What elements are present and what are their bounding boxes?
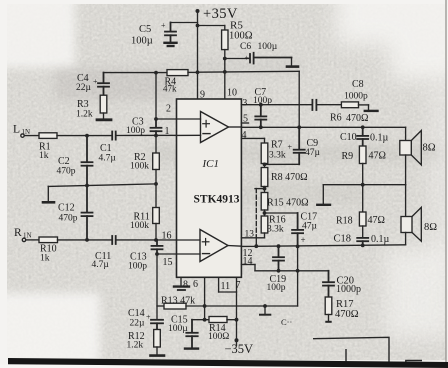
svg-text:470Ω: 470Ω [346, 113, 368, 124]
pin 3 wire to C8 [241, 104, 311, 106]
wire R1 to C1 [57, 135, 112, 137]
svg-text:+: + [146, 313, 151, 322]
svg-text:10: 10 [227, 88, 237, 99]
bias column x=156 down to C3 [155, 73, 157, 119]
svg-text:4.7µ: 4.7µ [92, 260, 110, 270]
wire C6 branch [225, 58, 250, 60]
svg-text:R18: R18 [336, 216, 353, 227]
ground for R3 [97, 118, 111, 121]
speaker 2 feed [405, 185, 407, 217]
svg-text:100p: 100p [267, 283, 286, 293]
svg-text:R15 470Ω: R15 470Ω [267, 198, 309, 209]
capacitor C18 [357, 238, 368, 246]
scan smudges [55, 60, 440, 204]
ground for R12 [151, 354, 165, 357]
right ground rail [323, 184, 405, 186]
svg-text:IC1: IC1 [202, 158, 220, 170]
svg-text:1: 1 [165, 126, 170, 137]
wire Rin to R10 [26, 239, 39, 241]
svg-text:470p: 470p [57, 167, 76, 177]
wire rail to bootstrap corner [198, 70, 300, 73]
svg-text:9: 9 [200, 90, 205, 101]
svg-text:100p: 100p [253, 96, 272, 106]
wire C11 to pin 16 [116, 239, 200, 241]
svg-text:100k: 100k [130, 221, 149, 231]
resistor R17 [325, 297, 332, 315]
svg-text:+: + [288, 143, 293, 152]
U1b plus sign [202, 239, 209, 246]
svg-text:C6: C6 [240, 42, 251, 52]
main output wire channel 1 [241, 126, 405, 128]
svg-text:4: 4 [242, 130, 247, 141]
capacitor C11 [112, 236, 116, 244]
pin 1 wire inside box [177, 134, 201, 136]
pin 7 column to -35V [236, 277, 238, 340]
capacitor C3 [151, 119, 162, 136]
svg-text:L: L [13, 124, 20, 136]
svg-text:47µ: 47µ [305, 148, 321, 158]
column C17 bottom down to R13 line [297, 246, 299, 306]
svg-text:47Ω: 47Ω [369, 151, 386, 162]
pin 8 stub and ground [180, 277, 182, 285]
capacitor C5 [165, 23, 176, 42]
svg-text:4.7µ: 4.7µ [99, 154, 117, 164]
svg-text:13: 13 [245, 230, 255, 240]
svg-text:22µ: 22µ [76, 83, 92, 93]
svg-text:6: 6 [193, 279, 198, 290]
capacitor C7 [255, 105, 266, 128]
speaker 1 [400, 141, 412, 156]
capacitor C2 [82, 136, 93, 186]
capacitor C4 [98, 73, 109, 96]
svg-text:+: + [161, 21, 166, 30]
wire R5 top branch [198, 25, 225, 27]
pin 15 wire inside box [177, 253, 201, 255]
resistor R15 [261, 193, 268, 211]
pin 2 wire inside box [177, 118, 201, 120]
pin 4 wire [241, 137, 264, 139]
resistor R12 [154, 330, 161, 348]
svg-text:15: 15 [163, 257, 173, 268]
resistor R1 [39, 133, 57, 139]
+35V supply column [197, 11, 199, 99]
capacitor C8 [312, 100, 316, 110]
L input terminal [21, 134, 24, 137]
ground stub right rail [322, 185, 324, 204]
svg-text:1000p: 1000p [344, 92, 368, 102]
svg-text:100Ω: 100Ω [229, 31, 253, 42]
resistor R7 [264, 138, 266, 143]
pin 11 stub [218, 277, 220, 292]
svg-text:3.3k: 3.3k [267, 225, 284, 235]
pin 14 wire [241, 264, 255, 266]
svg-text:470p: 470p [59, 214, 78, 224]
svg-text:47µ: 47µ [302, 222, 318, 232]
op-amp U1b triangle [200, 230, 228, 262]
capacitor C9 [294, 127, 305, 164]
svg-text:100Ω: 100Ω [208, 332, 229, 342]
wire C1 to pin 1 [116, 134, 201, 136]
capacitor C12 [82, 186, 93, 240]
pin 15 wire [157, 253, 200, 255]
svg-text:100µ: 100µ [258, 42, 278, 52]
svg-text:C··: C·· [281, 317, 292, 327]
wire R10 to C11 [58, 239, 112, 241]
resistor R11 [153, 208, 160, 224]
svg-text:8: 8 [183, 280, 188, 291]
IC1 STK4913 box [177, 99, 242, 277]
capacitor C6 [250, 53, 292, 64]
bottom black band [8, 358, 448, 368]
U1b output wire [228, 245, 241, 248]
R6 termination stub [368, 105, 370, 110]
R input terminal [22, 238, 25, 241]
svg-text:+: + [93, 77, 98, 86]
resistor R9 [359, 146, 366, 164]
svg-text:C5: C5 [139, 24, 151, 35]
pin 12 output wire channel 2 [241, 245, 405, 247]
ground for C15 [185, 347, 198, 349]
R13 feedback line [157, 305, 164, 307]
resistor R4 [167, 70, 188, 76]
ground for C5 [165, 43, 177, 46]
wire C19 bottom to C20 [255, 270, 329, 272]
resistor R2 [155, 136, 157, 154]
svg-text:1.2k: 1.2k [76, 110, 93, 120]
speaker 1 feed [405, 127, 407, 140]
svg-text:STK4913: STK4913 [194, 194, 240, 206]
svg-text:3.3k: 3.3k [269, 151, 286, 161]
right page border line [445, 0, 447, 365]
svg-text:8Ω: 8Ω [424, 222, 437, 233]
capacitor C20 [323, 271, 334, 297]
R14 / C15 line [192, 319, 209, 321]
resistor R13 [164, 303, 186, 309]
svg-text:C8: C8 [352, 79, 364, 90]
svg-text:100µ: 100µ [131, 36, 153, 47]
svg-text:+: + [301, 235, 306, 245]
ground stub on R13 line [264, 306, 266, 314]
U1b minus sign [203, 253, 210, 255]
resistor R5 [224, 26, 226, 31]
svg-text:2: 2 [166, 104, 171, 115]
resistor R18 [359, 212, 366, 226]
speaker 2 [401, 217, 412, 233]
speaker 2 bottom wire [405, 233, 407, 245]
capacitor C15 [186, 320, 197, 348]
C9/C17 bootstrap column from rail corner [298, 71, 300, 127]
wire C5 top branch [171, 22, 198, 24]
svg-text:3: 3 [243, 99, 248, 109]
speaker 1 bottom wire [405, 155, 407, 185]
pin 2 wire [156, 118, 201, 120]
svg-text:100µ: 100µ [168, 324, 188, 334]
svg-text:47k: 47k [163, 84, 177, 94]
resistor R8 [261, 168, 268, 187]
svg-text:1k: 1k [39, 151, 49, 161]
svg-text:100p: 100p [126, 126, 145, 136]
resistor R14 [209, 317, 227, 323]
wire C8 to R6 [317, 104, 342, 106]
svg-text:R3: R3 [77, 99, 89, 110]
svg-text:C2: C2 [58, 156, 70, 167]
pin 6 column [204, 277, 206, 319]
pin 16 wire inside box [177, 239, 201, 241]
column C13 down to R13 corner and C14 [156, 254, 158, 320]
op-amp U1a triangle [201, 112, 229, 143]
capacitor C1 [112, 132, 116, 140]
top bias rail y=72 [104, 72, 168, 74]
svg-text:R8 470Ω: R8 470Ω [271, 172, 308, 183]
-35V terminal dot [235, 338, 239, 342]
svg-text:100p: 100p [128, 262, 147, 272]
svg-text:0.1µ: 0.1µ [370, 133, 389, 144]
svg-text:−35V: −35V [225, 342, 254, 356]
svg-text:7: 7 [236, 280, 241, 291]
svg-text:C18: C18 [334, 234, 352, 245]
svg-text:8Ω: 8Ω [423, 143, 436, 154]
capacitor C14 [151, 320, 163, 330]
resistor R3 [100, 95, 107, 113]
C6 termination stub [291, 58, 293, 66]
svg-text:1000p: 1000p [336, 284, 361, 295]
svg-text:1.2k: 1.2k [127, 341, 144, 351]
svg-text:22µ: 22µ [130, 319, 146, 329]
pin 5 stub [241, 122, 248, 124]
ground symbol left [47, 186, 49, 201]
svg-text:0.1µ: 0.1µ [371, 234, 390, 245]
resistor R10 [39, 237, 58, 243]
svg-text:R6: R6 [330, 113, 342, 124]
svg-text:11: 11 [221, 281, 231, 292]
wire C9 bottom to R7/R8 junction [265, 163, 300, 165]
U1a output wire [229, 126, 242, 128]
svg-text:+: + [245, 54, 250, 63]
svg-text:5: 5 [243, 114, 248, 125]
capacitor C17 [292, 213, 303, 246]
svg-text:1k: 1k [40, 254, 50, 264]
bottom partial figure lines [313, 337, 422, 367]
pin 11 to pin 7 link [219, 291, 237, 293]
svg-text:C10: C10 [340, 132, 357, 143]
U1a plus sign [203, 120, 210, 127]
capacitor C10 [357, 127, 368, 146]
svg-text:14: 14 [243, 256, 253, 267]
svg-text:C1: C1 [100, 143, 112, 154]
pin 13 wire [241, 237, 264, 239]
svg-text:R13 47k: R13 47k [161, 296, 195, 307]
feedback wire to pin 13 (dashed look) [255, 188, 265, 190]
svg-text:100k: 100k [130, 162, 149, 172]
svg-text:470Ω: 470Ω [335, 309, 359, 320]
svg-text:1N: 1N [22, 128, 31, 136]
U1a minus sign [203, 133, 210, 135]
svg-text:R7: R7 [271, 140, 283, 151]
wire Lin to R1 [24, 135, 39, 137]
resistor R6 [341, 102, 358, 108]
capacitor C19 [273, 246, 284, 271]
svg-text:R9: R9 [342, 151, 354, 162]
capacitor C13 [152, 240, 163, 254]
svg-text:R: R [14, 227, 22, 239]
svg-text:16: 16 [162, 231, 172, 242]
svg-text:C14: C14 [128, 308, 145, 319]
svg-text:47Ω: 47Ω [368, 215, 385, 226]
left ground rail [48, 184, 156, 187]
pin 14 drop to C19/C20 wire [254, 265, 256, 271]
wire R15/R16 junction to C17 [265, 212, 298, 214]
svg-text:1N: 1N [23, 232, 32, 240]
svg-text:C12: C12 [58, 203, 75, 214]
resistor R16 [261, 216, 268, 233]
